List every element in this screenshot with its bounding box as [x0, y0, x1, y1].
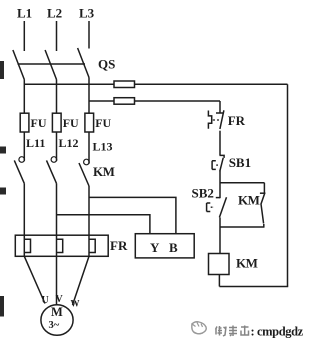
svg-text:FU: FU: [31, 116, 47, 130]
wire fuse1 to contact: [23, 132, 25, 161]
thermal relay FR box: [15, 235, 108, 256]
svg-text:FR: FR: [228, 113, 246, 128]
wire L2 feed: [56, 21, 58, 51]
edge artifact bar 2: [0, 147, 6, 154]
svg-text:: cmpdgdz: : cmpdgdz: [251, 325, 304, 339]
svg-text:FU: FU: [95, 116, 111, 130]
edge artifact bar 1: [0, 61, 4, 79]
wire coil to bottom rail: [218, 275, 220, 287]
wire branch bottom: [220, 226, 265, 228]
svg-text:V: V: [56, 294, 64, 305]
watermark logo: [192, 322, 207, 334]
FR heater pole3: [89, 235, 95, 256]
wire L1 feed: [23, 21, 25, 51]
wire bottom rail: [219, 286, 288, 288]
button SB1 (NC): [212, 155, 224, 171]
wire SB1 to junction: [219, 171, 221, 199]
fuse FU3: [85, 113, 94, 132]
svg-text:L13: L13: [93, 140, 113, 154]
switch QS pole 2 blade: [45, 50, 56, 80]
svg-text:QS: QS: [98, 57, 115, 72]
wire tap to YB lower: [57, 215, 150, 234]
svg-text:L1: L1: [17, 6, 32, 21]
svg-text:L2: L2: [47, 6, 62, 21]
svg-text:B: B: [169, 240, 178, 255]
wire pole1 to FR: [23, 183, 25, 235]
contactor KM main pole2: [47, 157, 57, 184]
svg-text:W: W: [71, 299, 80, 309]
svg-text:M: M: [51, 305, 63, 319]
wire motor W: [73, 256, 90, 305]
fuse FU2: [52, 113, 61, 132]
wire bus1: [24, 83, 287, 85]
contact FR (NC thermal): [208, 110, 224, 129]
contactor KM main pole1: [14, 157, 24, 184]
switch QS pole 3 blade: [78, 48, 89, 78]
svg-text:L3: L3: [79, 6, 95, 21]
wire pole3 to FR: [88, 186, 90, 235]
wire fuse3 to contact: [88, 132, 90, 164]
svg-text:U: U: [42, 295, 49, 306]
wire pole2 down: [56, 80, 58, 114]
contactor KM main pole3: [79, 159, 89, 186]
wire branch top: [220, 182, 265, 184]
button SB2 (NO): [207, 197, 227, 217]
wire SB2 to coil: [219, 218, 221, 254]
fuse FU control 1: [114, 81, 135, 88]
svg-text:L11: L11: [26, 136, 45, 150]
edge artifact bar 4: [0, 296, 4, 317]
fuse FU1: [20, 113, 29, 132]
contact KM aux: [260, 183, 265, 227]
svg-text:KM: KM: [93, 164, 115, 179]
wire pole3 down: [88, 78, 90, 114]
svg-text:KM: KM: [236, 256, 258, 271]
wire bus2: [89, 100, 220, 102]
fuse FU control 2: [114, 98, 135, 105]
svg-text:3~: 3~: [49, 320, 60, 331]
switch QS pole 1 blade: [13, 50, 24, 80]
wire motor U: [24, 256, 45, 303]
motor M circle: [41, 305, 73, 336]
svg-text:Y: Y: [150, 240, 160, 255]
FR heater pole2: [57, 235, 63, 256]
watermark text: [216, 326, 249, 337]
svg-text:SB2: SB2: [192, 186, 214, 201]
wire fuse2 to contact: [56, 132, 58, 161]
wire bus2 corner down to FR contact: [219, 101, 221, 113]
box Y B: [135, 234, 194, 258]
wire pole1 down: [23, 80, 25, 114]
svg-text:SB1: SB1: [229, 155, 251, 170]
wire right side down: [287, 84, 289, 286]
wire L3 feed: [88, 21, 90, 49]
wire tap to YB upper: [89, 197, 176, 234]
wire FR to SB1: [219, 131, 221, 156]
switch QS linkage: [18, 63, 86, 65]
svg-text:KM: KM: [238, 193, 260, 208]
wire motor V: [56, 256, 58, 304]
svg-text:FR: FR: [110, 238, 128, 253]
FR heater pole1: [24, 235, 30, 256]
wire pole2 to FR: [56, 183, 58, 235]
edge artifact bar 3: [0, 188, 6, 195]
svg-text:FU: FU: [63, 116, 79, 130]
coil KM: [209, 254, 230, 275]
svg-text:L12: L12: [59, 136, 79, 150]
